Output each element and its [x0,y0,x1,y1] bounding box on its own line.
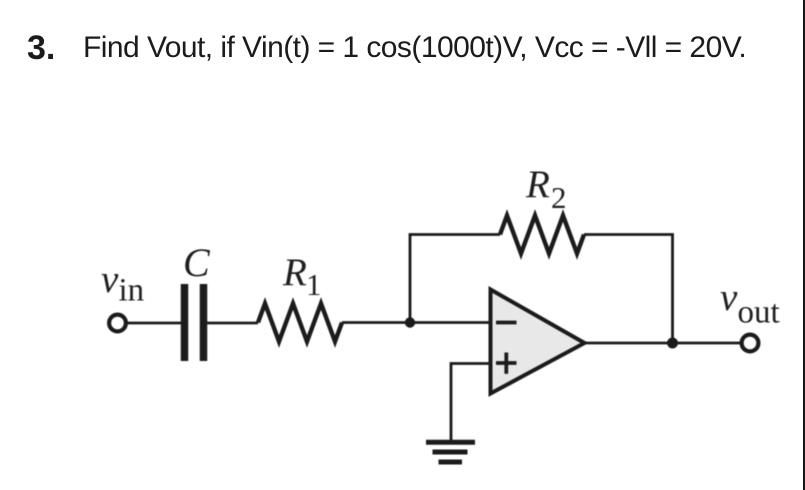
svg-text:C: C [183,240,211,285]
svg-text:v: v [101,258,119,301]
ground [426,442,475,462]
terminal vout [742,335,759,352]
svg-text:R: R [525,163,550,206]
node B [667,338,678,349]
wire non-inverting input to ground [451,364,491,442]
svg-text:v: v [720,276,738,319]
svg-text:in: in [119,273,145,309]
resistor R1 [258,304,342,342]
wire node A to op-amp inverting input [410,321,490,324]
wire R2 to output node [584,235,673,344]
question number [27,29,55,68]
wire op-amp output to node B [585,342,673,345]
svg-text:1: 1 [306,267,322,302]
capacitor C [185,284,204,361]
op-amp U1 [491,290,585,394]
label R2 [525,163,567,215]
label vout [720,276,780,331]
wire node A up and to R2 [410,235,500,323]
question text [83,31,746,65]
svg-text:R: R [282,251,307,294]
page right border [803,0,805,490]
resistor R2 [500,216,584,254]
node A [405,317,415,327]
svg-text:out: out [738,295,780,331]
wire capacitor to R1 [207,322,258,325]
wire R1 to node A [342,321,410,324]
terminal vin [109,315,126,332]
wire input to capacitor [126,322,182,325]
label R1 [282,251,322,302]
label vin [101,258,144,309]
wire node B to output terminal [673,342,742,345]
svg-text:2: 2 [551,180,567,215]
